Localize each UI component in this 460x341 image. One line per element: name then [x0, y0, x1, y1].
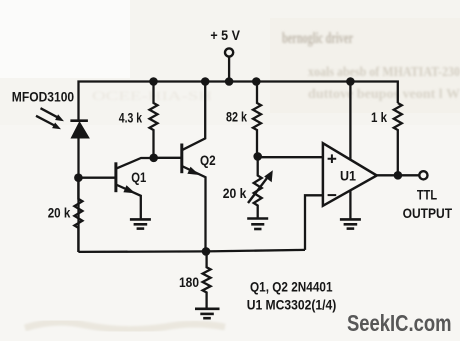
- node: Q2 collector at top rail: [201, 77, 210, 86]
- svg-text:4.3 k: 4.3 k: [119, 109, 142, 125]
- svg-text:xoals abesb of MHATIAT-230: xoals abesb of MHATIAT-230: [308, 64, 460, 79]
- svg-text:U1: U1: [340, 167, 356, 183]
- svg-text:U1 MC3302(1/4): U1 MC3302(1/4): [247, 296, 337, 312]
- svg-text:duttove beupos veont l W: duttove beupos veont l W: [308, 86, 460, 101]
- photodiode D1 MFOD3100: [70, 121, 89, 252]
- svg-text:bernoglic driver: bernoglic driver: [282, 30, 353, 47]
- svg-text:OCEE-HIA-SH: OCEE-HIA-SH: [92, 89, 212, 103]
- ground (Q1 emitter): [130, 219, 151, 228]
- node: op-amp V+ at top rail: [346, 77, 355, 86]
- resistor R3 180: [203, 251, 211, 308]
- node: +5V at top rail: [225, 77, 234, 86]
- transistor Q1 2N4401: [78, 158, 153, 219]
- ground (180 resistor): [195, 309, 220, 318]
- wire op-amp output: [377, 174, 420, 176]
- resistor R2 4.3k: [150, 82, 158, 158]
- svg-text:180: 180: [179, 274, 199, 290]
- potentiometer R5 20k (variable): [248, 156, 273, 217]
- svg-text:+ 5 V: + 5 V: [210, 27, 240, 43]
- ground (op-amp): [340, 219, 361, 228]
- svg-text:TTL: TTL: [417, 186, 438, 202]
- transistor Q2 2N4401: [154, 82, 206, 252]
- resistor R6 1k: [394, 103, 402, 175]
- +5V supply terminal: [210, 27, 240, 82]
- ground (pot): [247, 219, 268, 230]
- op-amp U1 MC3302: [323, 82, 377, 219]
- svg-text:20 k: 20 k: [223, 185, 247, 201]
- svg-text:Q2: Q2: [200, 152, 216, 168]
- node: top rail 4.3k: [149, 77, 158, 86]
- resistor R4 82k: [253, 82, 261, 157]
- svg-text:OUTPUT: OUTPUT: [403, 205, 453, 221]
- ghost bleed-through text: [92, 30, 460, 103]
- node: top rail 82k: [252, 77, 261, 86]
- wire top rail: [79, 82, 398, 122]
- node: output / 1k junction: [394, 171, 403, 180]
- light arrows into photodiode: [36, 108, 64, 129]
- wire to + input: [258, 156, 323, 158]
- node: Q1 collector / 4.3k / Q2 base junction: [149, 154, 158, 163]
- resistor R1 20k (left): [74, 181, 82, 252]
- wire inverting input from bottom rail: [305, 195, 323, 250]
- svg-text:82 k: 82 k: [226, 109, 247, 125]
- output terminal: [419, 171, 427, 179]
- svg-text:Q1: Q1: [131, 169, 146, 185]
- svg-text:Q1, Q2 2N4401: Q1, Q2 2N4401: [250, 278, 333, 294]
- wire bottom rail: [78, 250, 305, 252]
- node: 82k / pot / op-amp + input junction: [253, 152, 262, 161]
- svg-text:20 k: 20 k: [48, 205, 71, 221]
- svg-text:SeekIC.com: SeekIC.com: [347, 310, 452, 336]
- node: junction left branch / Q1 base: [74, 173, 83, 182]
- svg-text:1 k: 1 k: [371, 109, 387, 125]
- svg-text:MFOD3100: MFOD3100: [12, 89, 74, 105]
- node: bottom rail / Q2 emitter / 180 junction: [202, 247, 211, 256]
